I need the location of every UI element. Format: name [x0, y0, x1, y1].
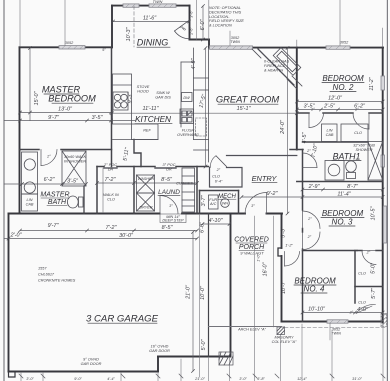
dim line garage row2 30'-0" — [4, 238, 197, 240]
hearth hatch — [287, 79, 297, 89]
wall toilet alcove — [83, 186, 85, 214]
svg-text:LOCATION-: LOCATION- — [209, 15, 230, 19]
pantry strip lines — [193, 48, 195, 140]
kitchen sink — [180, 109, 194, 124]
svg-text:2'-5": 2'-5" — [323, 104, 336, 110]
door bed4 hall fan — [284, 252, 286, 267]
dim line 24'-0" vertical great room — [287, 48, 289, 214]
door bath1 — [303, 167, 318, 169]
door closet b3 — [362, 250, 376, 252]
svg-text:2'-6": 2'-6" — [190, 27, 194, 36]
svg-text:6'-8": 6'-8" — [257, 377, 265, 381]
svg-text:24'-0": 24'-0" — [280, 119, 286, 135]
dim line garage row1 — [20, 230, 197, 232]
wall porch right — [281, 214, 283, 249]
wall laundry east — [196, 167, 198, 214]
svg-text:TWIN: TWIN — [153, 0, 163, 4]
wall bath1 west / bedrooms hall — [302, 150, 304, 182]
fireplace box rotated — [273, 48, 301, 76]
washer — [137, 175, 155, 193]
svg-text:3052: 3052 — [65, 41, 74, 45]
dim line garage 21'-0" vertical — [192, 232, 194, 371]
dim line bedroom2 12'-0" — [297, 101, 383, 103]
svg-text:ENTRY: ENTRY — [252, 174, 278, 183]
bath1 lin cab — [322, 124, 338, 142]
svg-text:3°: 3° — [169, 204, 173, 208]
wall great room east — [296, 48, 298, 150]
svg-text:10'-10": 10'-10" — [308, 307, 326, 313]
svg-text:11'-11": 11'-11" — [143, 106, 160, 112]
svg-text:9'-7": 9'-7" — [48, 115, 60, 121]
wall master top — [20, 46, 113, 48]
svg-text:CLO: CLO — [358, 272, 366, 276]
bath1 vanity — [325, 161, 344, 181]
svg-text:CAB: CAB — [26, 203, 34, 207]
svg-text:10'-3": 10'-3" — [126, 27, 132, 42]
door laundry to garage — [159, 196, 161, 214]
svg-text:GREAT ROOM: GREAT ROOM — [216, 94, 280, 105]
svg-text:MASONRY: MASONRY — [274, 336, 294, 340]
wall bedroom3 south — [303, 250, 358, 252]
wall house south — [9, 213, 160, 215]
garage bottom-left corner step — [9, 372, 16, 378]
master bath toilet — [67, 196, 78, 208]
ext line bed4 window — [329, 323, 331, 340]
pantry tiny dims — [190, 10, 194, 36]
svg-text:11'-4": 11'-4" — [337, 191, 351, 197]
window dining 2 — [149, 4, 176, 7]
svg-text:4'-10": 4'-10" — [209, 218, 224, 224]
window bedroom3 east — [383, 206, 386, 243]
svg-text:6'-4": 6'-4" — [215, 180, 223, 184]
svg-text:CLO: CLO — [354, 131, 362, 135]
svg-text:6'-0": 6'-0" — [200, 19, 206, 31]
svg-text:15'-1": 15'-1" — [237, 106, 252, 112]
wall dining right upper — [189, 6, 191, 40]
svg-text:3'-0": 3'-0" — [26, 377, 34, 381]
entry north wall — [227, 155, 297, 157]
svg-text:2°: 2° — [46, 155, 51, 159]
stoop hatch — [219, 352, 233, 365]
svg-text:4'-4": 4'-4" — [107, 377, 115, 381]
wall garage east — [208, 214, 210, 357]
svg-text:3'-7": 3'-7" — [201, 195, 207, 207]
svg-text:CRONKNITE HOMES: CRONKNITE HOMES — [38, 279, 76, 283]
svg-text:& HEARTH: & HEARTH — [264, 69, 283, 73]
fireplace diagonal wall — [258, 49, 294, 85]
pocket door kitchen hall — [155, 167, 176, 169]
wall bedroom2 south — [297, 112, 309, 114]
dim line porch 4'-10" — [203, 223, 230, 225]
svg-text:2°: 2° — [306, 149, 311, 153]
svg-text:9'-2": 9'-2" — [267, 191, 279, 197]
pocket door walk-in — [104, 167, 117, 169]
svg-text:3°: 3° — [251, 204, 255, 208]
svg-text:5'-7": 5'-7" — [371, 287, 377, 299]
svg-text:9'-7": 9'-7" — [48, 223, 60, 229]
dim line master 15'-0" vertical — [29, 48, 31, 121]
corner hatch SE — [381, 314, 387, 327]
master bath lin cab — [22, 194, 38, 211]
ext line top dining left — [196, 0, 198, 40]
mech furnace — [209, 195, 219, 209]
svg-text:BEDROOM: BEDROOM — [48, 94, 96, 104]
masonry column — [277, 327, 285, 335]
svg-text:1'-2": 1'-2" — [285, 244, 293, 248]
ext line top b2 window — [339, 0, 341, 46]
svg-text:LIN: LIN — [327, 129, 333, 133]
svg-text:21'-0": 21'-0" — [186, 284, 192, 300]
svg-text:DW: DW — [183, 96, 190, 100]
svg-text:3'-5": 3'-5" — [67, 179, 79, 185]
walk-in rod line — [102, 168, 104, 212]
svg-text:TWIN: TWIN — [230, 40, 240, 44]
svg-text:16'-0": 16'-0" — [263, 262, 269, 277]
svg-text:WH: WH — [222, 202, 229, 206]
wall bedroom3 west — [302, 182, 304, 211]
dim line 17'-5" vertical kitchen — [205, 48, 207, 167]
bath1 tub — [368, 142, 383, 181]
svg-text:8'-5": 8'-5" — [162, 225, 174, 231]
svg-text:& LOCATION: & LOCATION — [209, 24, 232, 28]
svg-text:5'-3": 5'-3" — [281, 226, 287, 238]
svg-text:9' WALL HGT: 9' WALL HGT — [240, 252, 264, 256]
svg-text:SHOWER: SHOWER — [355, 148, 372, 152]
dim line 11'-4 / 9'-2 row — [242, 196, 383, 198]
window hatch marks — [62, 4, 347, 323]
wall bath1 cab row bottom — [303, 141, 369, 143]
svg-text:HOOD: HOOD — [137, 89, 149, 93]
dim line dining 11'-6" — [113, 21, 189, 23]
wall closet divider — [355, 286, 383, 288]
svg-text:OVERHANG: OVERHANG — [177, 133, 199, 137]
cubbies — [182, 168, 195, 212]
svg-text:CLO: CLO — [107, 198, 115, 202]
svg-text:REF: REF — [143, 129, 151, 133]
wall bath1 south / bedroom3 north — [297, 181, 383, 183]
mech water heater — [221, 199, 230, 208]
svg-text:NO. 3: NO. 3 — [332, 218, 353, 227]
sheet border left — [3, 0, 5, 381]
svg-text:1557: 1557 — [38, 267, 47, 271]
window bedroom2 east — [381, 76, 385, 90]
door bedroom2 closet — [368, 113, 370, 129]
svg-text:6'-0": 6'-0" — [200, 221, 206, 233]
svg-text:BATH: BATH — [48, 199, 67, 206]
entry closet door — [210, 156, 216, 168]
kitchen counter bottom edge — [113, 139, 159, 141]
svg-text:FLUSH: FLUSH — [182, 129, 195, 133]
ext line top right wall — [382, 28, 384, 47]
svg-text:ARCH ELEV "A": ARCH ELEV "A" — [237, 328, 266, 332]
svg-text:PORCH: PORCH — [239, 244, 265, 251]
wall master bedroom south — [20, 149, 40, 151]
dim line master 13'-0" — [20, 112, 111, 114]
svg-text:CLO: CLO — [358, 301, 366, 305]
wall dining jog — [190, 39, 210, 41]
svg-text:2°: 2° — [310, 108, 315, 112]
svg-text:9'-0": 9'-0" — [74, 377, 82, 381]
svg-text:CAB: CAB — [326, 133, 334, 137]
wall garage step — [157, 357, 159, 372]
svg-text:CHL6617: CHL6617 — [38, 273, 55, 277]
svg-text:12'-0": 12'-0" — [328, 96, 343, 102]
door bedroom3 — [302, 211, 304, 229]
door bedroom4 — [302, 232, 304, 250]
entry closet — [210, 168, 243, 188]
svg-text:7'-2": 7'-2" — [105, 177, 117, 183]
dashed line dining — [133, 6, 135, 47]
wall mech north — [200, 190, 239, 192]
dim line laundry row — [97, 182, 197, 184]
svg-text:4'-5": 4'-5" — [302, 132, 308, 144]
svg-text:15'-0": 15'-0" — [34, 91, 40, 106]
step at laundry door — [160, 214, 186, 223]
svg-text:FIELD VERIFY SIZE: FIELD VERIFY SIZE — [209, 19, 244, 23]
dim line master 9'-7 / 3'-5 — [4, 120, 135, 122]
svg-text:2°: 2° — [216, 168, 221, 172]
svg-text:GAR DOOR: GAR DOOR — [149, 349, 170, 353]
svg-text:GAR DIS: GAR DIS — [155, 95, 171, 99]
svg-text:3'-5": 3'-5" — [92, 115, 104, 121]
kitchen counter west — [113, 74, 132, 124]
svg-text:3'-6": 3'-6" — [190, 10, 194, 18]
wall right exterior — [382, 48, 384, 323]
svg-text:COL ELEV "A": COL ELEV "A" — [272, 340, 297, 344]
bath1 b2 closet — [341, 124, 368, 142]
svg-text:1'-0": 1'-0" — [257, 254, 261, 262]
svg-text:2'-9": 2'-9" — [308, 184, 321, 190]
dim line bedroom4 10'-10" — [303, 312, 383, 314]
svg-text:CLO: CLO — [212, 175, 220, 179]
svg-text:TWIN: TWIN — [331, 332, 341, 336]
corner pantry dining: door leaf + arc — [175, 20, 190, 31]
range — [113, 92, 128, 110]
ext line top master corner — [19, 0, 21, 46]
svg-text:DEEP STEP: DEEP STEP — [162, 219, 184, 223]
ext lines bottom — [20, 373, 22, 381]
svg-text:6'-2": 6'-2" — [44, 177, 56, 183]
svg-text:8'-5": 8'-5" — [161, 177, 173, 183]
wall porch left — [230, 214, 232, 357]
wall dining top — [112, 5, 190, 7]
wall dining left — [111, 6, 113, 48]
ext line top b2 window label — [229, 31, 231, 46]
svg-text:WASHER: WASHER — [138, 177, 155, 181]
svg-text:NO. 4: NO. 4 — [304, 285, 325, 294]
sheet border right — [386, 0, 388, 381]
svg-text:IN SHOWER: IN SHOWER — [64, 159, 86, 163]
window great room 3052 twin — [210, 46, 253, 49]
svg-text:DR: DR — [108, 167, 114, 171]
wall mech east — [238, 191, 240, 214]
svg-text:BEDROOM: BEDROOM — [322, 74, 364, 83]
svg-text:31'-0": 31'-0" — [352, 377, 362, 381]
window bath1 east — [381, 155, 385, 167]
svg-text:3'-0": 3'-0" — [239, 377, 247, 381]
dishwasher — [182, 93, 193, 102]
dim line deck 6'-0" vertical — [202, 6, 204, 39]
wall kitchen-laundry zigzag — [134, 140, 141, 167]
svg-text:0-CLEAR GAS: 0-CLEAR GAS — [264, 60, 290, 64]
wall master left — [19, 47, 21, 213]
wall hall stub east wing — [290, 149, 303, 151]
svg-text:LAUND: LAUND — [158, 189, 180, 196]
svg-text:12'-4": 12'-4" — [297, 377, 307, 381]
wall garage south left portion — [9, 371, 159, 373]
wall bedroom4 south — [282, 321, 383, 323]
ext line top great east wall — [296, 40, 298, 47]
window bedroom4 3052 twin — [327, 320, 348, 323]
svg-text:10'-0": 10'-0" — [200, 285, 206, 300]
dashed line bottom right — [285, 327, 388, 329]
wall closets west — [354, 251, 356, 304]
dim line bath1 row — [303, 189, 383, 191]
svg-text:GAR DOOR: GAR DOOR — [81, 362, 102, 366]
wall hall north (bath/walkin/laundry top) — [97, 166, 104, 168]
window dining 1 — [123, 4, 139, 7]
refrigerator — [132, 124, 159, 140]
svg-text:DECK/PATIO THIS: DECK/PATIO THIS — [209, 10, 242, 14]
svg-text:3052: 3052 — [340, 41, 349, 45]
svg-text:11'-6": 11'-6" — [143, 16, 157, 22]
wall garage south right portion — [158, 356, 230, 358]
svg-text:30'-0": 30'-0" — [119, 233, 134, 239]
svg-text:DR: DR — [166, 167, 172, 171]
ext line porch verticals — [254, 216, 256, 381]
wall main top (great room + bedroom2) — [209, 47, 383, 49]
svg-text:10'-5": 10'-5" — [371, 206, 377, 221]
svg-text:16° OVHD: 16° OVHD — [151, 345, 169, 349]
dim line kitchen/great 11'-11 / 15'-1 — [112, 112, 297, 114]
svg-text:A/C: A/C — [209, 202, 217, 206]
kitchen counter east band — [180, 62, 182, 127]
window bedroom2 3052 — [326, 46, 350, 49]
dryer — [137, 193, 155, 211]
wall mech west — [199, 191, 201, 214]
svg-text:2°: 2° — [307, 235, 312, 239]
wall walk-in east / laundry west — [133, 167, 135, 214]
svg-text:13'-0": 13'-0" — [58, 107, 73, 113]
svg-text:2'-0": 2'-0" — [10, 233, 23, 239]
ext line porch dim — [199, 215, 201, 377]
svg-text:4'-9": 4'-9" — [191, 58, 197, 70]
svg-text:KITCHEN: KITCHEN — [135, 115, 171, 124]
svg-text:9° OVHD: 9° OVHD — [83, 358, 99, 362]
svg-text:8'-7": 8'-7" — [347, 184, 359, 190]
svg-text:CUBBIES: CUBBIES — [176, 182, 193, 186]
svg-text:5'-0": 5'-0" — [201, 339, 207, 351]
svg-text:2°: 2° — [354, 108, 359, 112]
svg-text:DRYER: DRYER — [139, 206, 152, 210]
ext line top master window — [64, 0, 66, 46]
svg-text:10'-7": 10'-7" — [281, 279, 287, 294]
svg-text:FIREPLACE: FIREPLACE — [264, 64, 286, 68]
window master 3052 — [59, 46, 85, 49]
dim line master bath row — [4, 183, 86, 185]
bath1 toilet — [346, 161, 357, 172]
svg-text:MASTER: MASTER — [40, 192, 69, 199]
master shower — [62, 151, 86, 186]
door porch to entry — [266, 193, 268, 214]
svg-text:NO. 2: NO. 2 — [333, 83, 354, 92]
svg-text:WALK IN: WALK IN — [103, 193, 119, 197]
wall walk-in west — [96, 167, 98, 214]
ext line top deck right — [208, 0, 210, 40]
door bedroom2 — [308, 113, 310, 128]
svg-text:21'-0": 21'-0" — [194, 377, 205, 381]
master bath vanity — [22, 152, 38, 194]
wall garage left — [8, 214, 10, 372]
svg-text:2°: 2° — [307, 217, 312, 221]
dim line bedroom2 row2 — [297, 109, 383, 111]
svg-text:NOTE: OPTIONAL: NOTE: OPTIONAL — [209, 6, 241, 10]
svg-text:BATH1: BATH1 — [333, 152, 361, 162]
door master bath (swing into bath) — [40, 150, 42, 166]
wall master east — [111, 47, 113, 166]
svg-text:7'-2": 7'-2" — [106, 225, 118, 231]
svg-text:11'-2": 11'-2" — [369, 76, 375, 90]
svg-text:COVERED: COVERED — [234, 237, 269, 244]
svg-text:LIN: LIN — [27, 198, 33, 202]
porch south edge — [209, 326, 282, 328]
door closet b4 — [356, 304, 376, 313]
svg-text:DINING: DINING — [137, 38, 169, 48]
svg-text:2°: 2° — [349, 311, 354, 315]
svg-text:2°: 2° — [366, 251, 371, 255]
